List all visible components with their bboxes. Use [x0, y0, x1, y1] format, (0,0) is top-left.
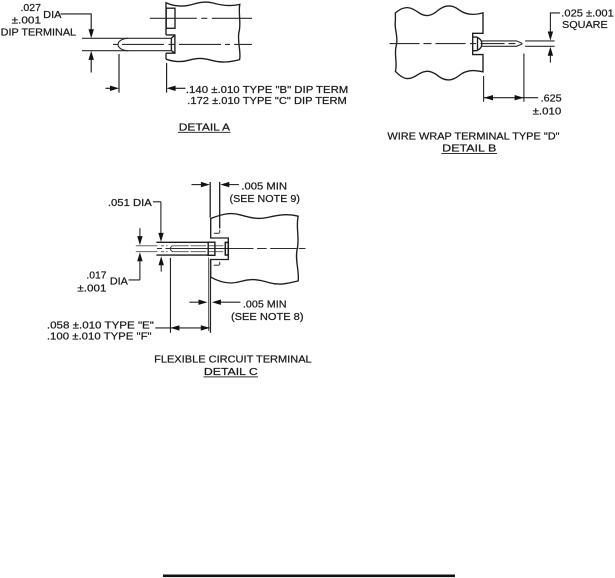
svg-text:.051 DIA: .051 DIA	[108, 198, 152, 209]
svg-text:.005 MIN: .005 MIN	[241, 182, 287, 193]
svg-text:±.010: ±.010	[533, 106, 562, 117]
svg-text:±.001: ±.001	[77, 284, 106, 295]
svg-text:DETAIL C: DETAIL C	[204, 367, 258, 378]
svg-text:(SEE NOTE 9): (SEE NOTE 9)	[230, 194, 300, 205]
svg-text:.017: .017	[86, 270, 106, 281]
svg-text:.025 ±.001: .025 ±.001	[561, 9, 614, 20]
svg-text:.100 ±.010 TYPE "F": .100 ±.010 TYPE "F"	[47, 332, 152, 343]
svg-text:DIP TERMINAL: DIP TERMINAL	[1, 28, 77, 39]
svg-text:.027: .027	[21, 3, 42, 14]
svg-text:WIRE WRAP TERMINAL TYPE "D": WIRE WRAP TERMINAL TYPE "D"	[387, 132, 560, 143]
svg-text:.625: .625	[541, 93, 562, 104]
svg-text:SQUARE: SQUARE	[562, 20, 608, 31]
svg-text:.172 ±.010 TYPE "C" DIP TERM: .172 ±.010 TYPE "C" DIP TERM	[187, 96, 346, 107]
svg-text:(SEE NOTE 8): (SEE NOTE 8)	[231, 312, 304, 323]
svg-text:.005 MIN: .005 MIN	[243, 299, 287, 310]
svg-text:.058 ±.010 TYPE "E": .058 ±.010 TYPE "E"	[47, 320, 154, 331]
svg-text:FLEXIBLE CIRCUIT TERMINAL: FLEXIBLE CIRCUIT TERMINAL	[154, 355, 312, 366]
svg-text:±.001: ±.001	[12, 16, 42, 27]
svg-text:DETAIL B: DETAIL B	[442, 144, 496, 155]
svg-text:.140 ±.010 TYPE "B" DIP TERM: .140 ±.010 TYPE "B" DIP TERM	[186, 85, 348, 96]
svg-text:DIA: DIA	[110, 277, 128, 288]
svg-text:DIA: DIA	[43, 10, 62, 21]
